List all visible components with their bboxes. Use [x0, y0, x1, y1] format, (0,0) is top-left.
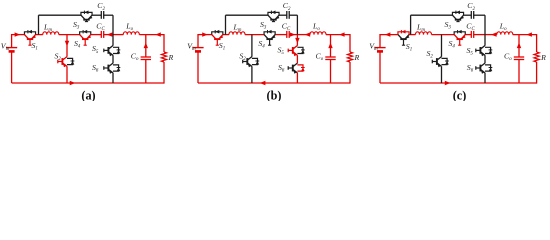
label S6 (c) — [467, 63, 474, 74]
capacitor CC (c) — [471, 31, 473, 38]
inductor Lo (a) — [123, 32, 139, 35]
wire: rail node to Lo (c) — [485, 34, 497, 36]
inductor Lm (b) — [229, 32, 245, 35]
current arrow rail output (c) — [526, 32, 532, 36]
transistor S1 (b) — [212, 30, 223, 45]
current arrow up on Co leg (b) — [328, 43, 332, 49]
transistor S5 (b) — [288, 46, 305, 57]
resistor R (b) — [347, 52, 352, 62]
label CC (b) — [282, 22, 291, 33]
wire: rail S1 to Lm (b) — [223, 34, 229, 36]
wire: rail Lo to load corner (b) — [326, 34, 350, 36]
label C2 (b) — [283, 1, 291, 12]
wire: rail S4 to CC (b) — [275, 34, 287, 36]
inductor Lo (b) — [310, 32, 326, 35]
capacitor C2 (a) — [101, 11, 103, 19]
label S4 (a) — [74, 39, 81, 50]
current arrow rail at CC-node (a) — [107, 32, 113, 36]
transistor S5 (c) — [476, 46, 493, 57]
label Lo (c) — [499, 22, 507, 33]
wire: box top S3 to C2 (a) — [92, 14, 101, 16]
current arrow bottom rail (a) — [70, 81, 76, 85]
label CC (a) — [96, 22, 105, 33]
wire: load leg (b) — [349, 34, 351, 84]
capacitor Co (c) — [514, 57, 524, 60]
wire: box top right + right leg (b) — [289, 15, 297, 34]
wire: chain node to S5 (a) — [112, 35, 114, 46]
wire: load leg (a) — [163, 34, 165, 84]
wire: chain S5 to S6 (b) — [296, 55, 298, 63]
current arrow rail input (c) — [385, 32, 391, 36]
current arrow rail input (b) — [202, 32, 208, 36]
wire: box top S3 to C2 (b) — [279, 14, 287, 16]
wire: rail S4 to CC (c) — [465, 34, 471, 36]
svg-text:R: R — [540, 53, 546, 62]
label S1 (b) — [219, 41, 225, 52]
wire: box top left (c) — [411, 14, 453, 16]
current arrow down on chain (b) — [295, 38, 299, 44]
wire: chain S5 to S6 (c) — [484, 55, 486, 63]
inductor Lo (c) — [497, 32, 513, 35]
caption (b) — [267, 89, 282, 103]
wire: output cap leg (a) — [145, 35, 147, 83]
current arrow rail before Lo (b) — [305, 32, 311, 36]
label Co (a) — [131, 52, 139, 63]
wire: rail CC to node (b) — [289, 34, 297, 36]
label S6 (a) — [92, 63, 99, 74]
transistor S3 (c) — [452, 11, 463, 22]
svg-text:(c): (c) — [453, 89, 467, 102]
label S1 (a) — [32, 41, 38, 52]
label Vin (b) — [187, 42, 196, 53]
inductor Lm (a) — [43, 32, 59, 35]
svg-text:(a): (a) — [81, 89, 95, 102]
label S3 (c) — [445, 20, 452, 31]
wire: source leg (c) — [379, 34, 381, 83]
capacitor C2 (c) — [471, 11, 473, 19]
wire: S2 branch upper (c) — [441, 35, 443, 57]
wire: rail input segment (b) — [198, 34, 212, 36]
wire: bottom return rail (b) — [198, 82, 350, 84]
current arrow rail at CC-node (b) — [290, 32, 296, 36]
wire: rail S1 to Lm (a) — [36, 34, 43, 36]
current arrow rail before Lo (c) — [491, 32, 497, 36]
wire: rail Lm to S4 (b) — [245, 34, 264, 36]
current arrow up on Co leg (c) — [517, 43, 521, 49]
wire: rail S4 to CC (a) — [91, 34, 102, 36]
wire: S2 branch lower (a) — [66, 66, 68, 83]
wire: chain node to S5 (b) — [296, 35, 298, 46]
transistor S3 (b) — [268, 11, 279, 22]
wire: box top right + right leg (a) — [104, 15, 113, 34]
wire: box left leg (c) — [410, 15, 412, 34]
wire: source leg (b) — [197, 34, 199, 83]
wire: box left leg (b) — [225, 15, 227, 34]
capacitor C2 (b) — [287, 11, 289, 19]
caption (c) — [453, 89, 467, 103]
wire: chain node to S5 (c) — [484, 35, 486, 46]
svg-text:(b): (b) — [267, 89, 282, 102]
transistor S6 (c) — [476, 63, 493, 74]
caption (a) — [81, 89, 95, 103]
capacitor Co (a) — [141, 57, 151, 60]
wire: source leg (a) — [11, 34, 13, 83]
voltage source Vin (c) — [374, 48, 385, 52]
wire: box top S3 to C2 (c) — [464, 14, 472, 16]
wire: rail Lo to load corner (c) — [513, 34, 537, 36]
resistor R (a) — [161, 52, 166, 62]
current arrow rail output (b) — [339, 32, 345, 36]
svg-text:R: R — [168, 53, 174, 62]
wire: rail S1 to Lm (c) — [409, 34, 415, 36]
current arrow down on S2 branch (a) — [65, 41, 69, 47]
wire: box top right + right leg (c) — [474, 15, 485, 34]
wire: chain S6 to bottom (b) — [296, 73, 298, 83]
transistor S6 (b) — [288, 63, 305, 74]
wire: chain S5 to S6 (a) — [112, 55, 114, 63]
label S1 (c) — [406, 42, 412, 53]
label S6 (b) — [278, 63, 285, 74]
label S3 (b) — [260, 20, 267, 31]
wire: rail CC to node (a) — [104, 34, 113, 36]
wire: chain S6 to bottom (a) — [112, 73, 114, 83]
label S2 (c) — [427, 49, 434, 60]
capacitor CC (a) — [101, 31, 103, 38]
label S4 (b) — [258, 39, 265, 50]
current arrow up on Co leg (a) — [144, 43, 148, 49]
transistor S1 (c) — [398, 30, 409, 45]
label S5 (b) — [278, 46, 285, 57]
label S3 (a) — [73, 20, 80, 31]
transistor S2 (a) — [58, 57, 75, 68]
label R (b) — [354, 53, 360, 62]
wire: rail Lm to S4 (a) — [59, 34, 80, 36]
wire: bottom return rail (c) — [380, 82, 537, 84]
transistor S2 (b) — [243, 57, 260, 68]
wire: rail input segment (a) — [12, 34, 25, 36]
label S5 (a) — [92, 44, 99, 55]
wire: rail node to Lo (b) — [297, 34, 310, 36]
capacitor Co (b) — [325, 57, 335, 60]
label S5 (c) — [467, 46, 474, 57]
voltage source Vin (a) — [6, 48, 17, 52]
transistor S5 (a) — [104, 46, 121, 57]
wire: output cap leg (b) — [330, 35, 332, 83]
wire: box left leg (a) — [38, 15, 40, 34]
label Lm (b) — [233, 23, 242, 34]
transistor S4 (b) — [264, 30, 275, 45]
label Vin (a) — [1, 42, 10, 53]
wire: output cap leg (c) — [518, 35, 520, 83]
wire: S2 branch upper (a) — [66, 35, 68, 57]
transistor S2 (c) — [432, 57, 449, 68]
label S4 (c) — [449, 39, 456, 50]
transistor S4 (c) — [454, 30, 465, 45]
wire: S2 branch lower (b) — [251, 66, 253, 83]
label Co (b) — [316, 52, 324, 63]
transistor S6 (a) — [104, 63, 121, 74]
label Lo (a) — [125, 22, 133, 33]
current arrow rail input (a) — [15, 32, 21, 36]
wire: chain S6 to bottom (c) — [484, 73, 486, 83]
wire: box top left (b) — [226, 14, 268, 16]
label S2 (a) — [55, 51, 62, 62]
svg-text:R: R — [354, 53, 360, 62]
label C2 (a) — [97, 1, 105, 12]
wire: rail Lm to S4 (c) — [432, 34, 455, 36]
label Vin (c) — [369, 42, 378, 53]
voltage source Vin (b) — [192, 48, 203, 52]
wire: box top left (a) — [39, 14, 81, 16]
current arrow rail output (a) — [155, 32, 161, 36]
wire: rail CC to node (c) — [474, 34, 485, 36]
wire: S2 branch lower (c) — [441, 66, 443, 83]
wire: rail node to Lo (a) — [113, 34, 123, 36]
label S2 (b) — [239, 52, 246, 63]
label C2 (c) — [467, 1, 475, 12]
label Lo (b) — [312, 22, 320, 33]
wire: load leg (c) — [536, 34, 538, 84]
label CC (c) — [466, 22, 475, 33]
wire: bottom return rail (a) — [12, 82, 164, 84]
capacitor CC (b) — [287, 31, 289, 38]
label Lm (c) — [416, 23, 425, 34]
wire: S2 branch upper (b) — [251, 35, 253, 57]
current arrow bottom rail (b) — [260, 81, 266, 85]
label Lm (a) — [43, 23, 52, 34]
current arrow bottom rail (c) — [445, 81, 451, 85]
label Co (c) — [504, 52, 512, 63]
label R (a) — [168, 53, 174, 62]
transistor S1 (a) — [24, 30, 35, 45]
transistor S4 (a) — [80, 30, 91, 45]
transistor S3 (a) — [81, 11, 92, 22]
label R (c) — [540, 53, 546, 62]
resistor R (c) — [534, 52, 539, 62]
wire: rail Lo to load corner (a) — [139, 34, 164, 36]
inductor Lm (c) — [416, 32, 432, 35]
wire: rail input segment (c) — [380, 34, 398, 36]
